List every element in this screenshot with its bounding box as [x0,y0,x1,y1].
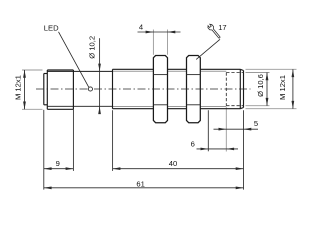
svg-text:40: 40 [169,159,177,168]
svg-text:6: 6 [191,139,195,148]
svg-text:Ø 10,2: Ø 10,2 [87,36,96,59]
svg-text:61: 61 [136,179,144,188]
svg-text:LED: LED [44,23,59,32]
svg-text:17: 17 [218,23,226,32]
svg-text:9: 9 [56,159,60,168]
svg-text:M 12x1: M 12x1 [278,75,287,100]
svg-text:5: 5 [254,119,258,128]
svg-text:4: 4 [139,23,143,32]
svg-text:M 12x1: M 12x1 [14,75,23,100]
svg-text:Ø 10,6: Ø 10,6 [256,74,265,97]
